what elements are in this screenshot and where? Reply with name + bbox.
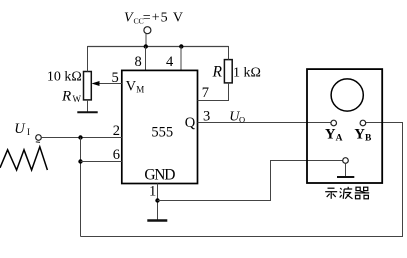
oscilloscope ground terminal bbox=[343, 158, 349, 164]
node: junction on pin 2 wire bbox=[78, 135, 82, 139]
svg-text:Y: Y bbox=[325, 127, 336, 143]
svg-text:B: B bbox=[365, 133, 372, 143]
wire: pin 7 bbox=[198, 83, 229, 101]
wire: pin 1 down bbox=[157, 184, 159, 220]
input terminal U1 bbox=[36, 135, 42, 141]
wire: pot top to rail bbox=[87, 46, 89, 72]
wire: pin 8 bbox=[145, 47, 147, 71]
svg-text:I: I bbox=[27, 127, 30, 137]
terminal YA bbox=[331, 120, 337, 126]
svg-text:Q: Q bbox=[185, 115, 196, 131]
wire: ground link to scope bbox=[158, 161, 343, 201]
ground bar (pin 1) bbox=[147, 219, 167, 221]
svg-text:U: U bbox=[14, 121, 26, 137]
svg-text:7: 7 bbox=[202, 85, 209, 101]
terminal YB bbox=[360, 120, 366, 126]
signal: triangle wave bbox=[0, 147, 47, 170]
wire: R bottom bbox=[228, 83, 230, 101]
wire: Vcc terminal stub bbox=[145, 34, 147, 47]
oscilloscope screen circle bbox=[331, 79, 363, 111]
node: junction pin 6 bbox=[78, 159, 82, 163]
svg-text:8: 8 bbox=[134, 54, 141, 70]
svg-text:1: 1 bbox=[149, 183, 156, 199]
node: junction pin 1 bbox=[155, 198, 159, 202]
svg-text:10 kΩ: 10 kΩ bbox=[47, 70, 82, 85]
node: junction pin 4 bbox=[179, 44, 183, 48]
wire: pin 5 with wiper arrow bbox=[99, 83, 122, 85]
char SHI bbox=[325, 188, 337, 199]
svg-text:6: 6 bbox=[113, 147, 120, 163]
svg-text:R: R bbox=[61, 88, 71, 104]
svg-text:R: R bbox=[212, 63, 223, 80]
wire: input to pin 2 bbox=[41, 137, 122, 139]
ground bar below potentiometer bbox=[77, 111, 97, 113]
char BO bbox=[340, 187, 353, 199]
svg-text:GND: GND bbox=[144, 166, 175, 183]
power terminal Vcc bbox=[144, 27, 151, 34]
wire: Vcc rail bbox=[88, 46, 229, 48]
svg-text:=+5 V: =+5 V bbox=[143, 11, 184, 26]
svg-text:O: O bbox=[239, 114, 245, 124]
stray mark above wave bbox=[36, 141, 40, 144]
wire: pin 6 bbox=[81, 161, 122, 163]
oscilloscope box bbox=[307, 69, 382, 183]
svg-text:M: M bbox=[136, 84, 144, 94]
label Vcc = +5 V bbox=[124, 11, 184, 26]
IC 555 timer box bbox=[122, 70, 198, 183]
svg-text:555: 555 bbox=[151, 125, 173, 141]
svg-text:2: 2 bbox=[113, 123, 120, 139]
label: oscilloscope (CJK drawn strokes) bbox=[325, 187, 369, 199]
svg-text:V: V bbox=[126, 79, 137, 95]
svg-text:W: W bbox=[73, 94, 82, 104]
svg-text:1 kΩ: 1 kΩ bbox=[233, 65, 261, 80]
wire: left vertical down bbox=[80, 138, 82, 237]
wire: pin 3 output bbox=[198, 122, 331, 124]
resistor R body bbox=[224, 60, 232, 83]
svg-text:5: 5 bbox=[112, 70, 119, 86]
node: junction pin 8 bbox=[144, 44, 148, 48]
svg-text:V: V bbox=[124, 11, 134, 26]
char QI bbox=[355, 187, 369, 199]
svg-text:4: 4 bbox=[166, 54, 174, 70]
wire: R top to rail bbox=[228, 46, 230, 60]
wire: pin 4 bbox=[180, 47, 182, 71]
potentiometer RW body bbox=[84, 72, 92, 100]
svg-text:Y: Y bbox=[354, 127, 365, 143]
svg-text:3: 3 bbox=[203, 108, 210, 124]
svg-text:A: A bbox=[336, 133, 343, 143]
wire: pot bottom bbox=[87, 100, 89, 112]
wire: bottom return to YB bbox=[81, 123, 403, 237]
